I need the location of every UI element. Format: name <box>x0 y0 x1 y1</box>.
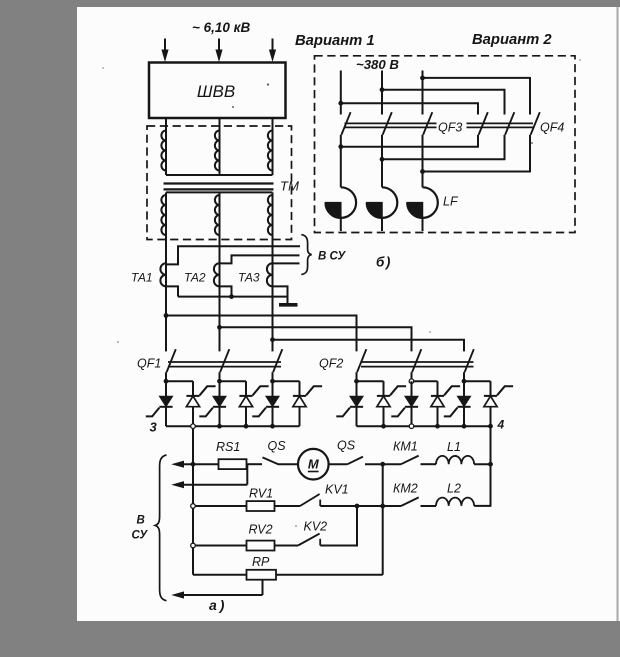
wire: 380V phase 1 vertical <box>340 71 342 115</box>
junction 380V phase 3 top tap <box>420 76 425 81</box>
wire arrow2 <box>182 484 247 486</box>
breaker QF4 pole 1 <box>479 112 488 135</box>
node bridge2 pair 2 (terminal) <box>409 379 414 384</box>
reactor LF1 <box>326 187 357 231</box>
wire: QF4 pole 1 upper lead <box>477 102 479 114</box>
inductor L1 <box>436 456 474 464</box>
wire: QF4 pole 3 lower lead <box>529 135 531 173</box>
wire: QF1 pole 3 to bridge <box>272 372 274 381</box>
wire row1 left <box>182 463 219 465</box>
wire KV2 to KV1 row <box>320 506 357 546</box>
current transformer TA1 <box>160 263 166 286</box>
breaker QF2 pole 3 <box>465 349 474 372</box>
wire: bridge1 output bus (node 3) <box>166 425 300 427</box>
wire: bridge1 pair 3 top link <box>273 380 300 382</box>
svg-text:~ 6,10 кВ: ~ 6,10 кВ <box>192 20 251 35</box>
thyristor VS11 (cathode down) <box>444 381 471 426</box>
node bridge1 pair 3 <box>270 379 275 384</box>
breaker QF1 pole 3 <box>273 349 282 372</box>
supply arrow 3 <box>269 39 276 63</box>
wire: phase 1 into TM primary <box>165 118 167 175</box>
wire: TA1 return lead <box>166 286 178 296</box>
svg-text:QF2: QF2 <box>319 357 343 371</box>
svg-text:СУ: СУ <box>132 530 149 542</box>
junction 380V phase 1 bottom tap <box>338 144 343 149</box>
wire <box>329 463 348 465</box>
svg-text:б): б) <box>376 255 392 270</box>
arrow to control (RS1 signal) <box>171 461 184 468</box>
resistor RV1 <box>247 501 275 511</box>
junction <box>488 462 493 467</box>
svg-text:ТА3: ТА3 <box>238 271 260 285</box>
junction feeder B <box>217 325 222 330</box>
junction bus <box>462 424 467 429</box>
wire: QF4 pole 2 lower lead <box>504 135 506 160</box>
TM primary winding 2 <box>215 131 220 171</box>
wire <box>365 463 401 465</box>
svg-text:КМ1: КМ1 <box>393 440 418 454</box>
wire: phase 1 vertical to QF1 <box>165 235 167 351</box>
contactor KM1 contact <box>401 456 419 465</box>
wire: TM primary common <box>166 174 273 176</box>
svg-text:ШВВ: ШВВ <box>197 82 235 101</box>
arrow to control (RP signal) <box>171 591 184 598</box>
junction <box>380 462 385 467</box>
motor M <box>298 449 329 480</box>
wire RP to KM1 node <box>276 574 383 576</box>
junction <box>191 462 196 467</box>
wire <box>474 505 491 507</box>
junction bus <box>381 424 386 429</box>
wire: 380V phase 2 vertical <box>381 71 383 115</box>
wire: 380V phase 3 vertical <box>422 71 424 115</box>
junction <box>380 504 385 509</box>
breaker QF3 linkage <box>345 122 437 124</box>
wire: QF1 pole 1 to bridge <box>165 372 167 381</box>
wire <box>275 545 299 547</box>
scan specks (noise) <box>267 83 269 85</box>
svg-text:В СУ: В СУ <box>318 251 346 263</box>
current transformer TA2 <box>214 263 220 286</box>
svg-text:3: 3 <box>150 420 158 435</box>
wire: QF2 pole 2 to bridge <box>411 372 413 381</box>
thyristor VS2 (cathode up) <box>186 381 215 426</box>
breaker QF4 pole 2 <box>505 112 514 135</box>
wire <box>275 505 301 507</box>
current transformer TA3 <box>267 263 273 286</box>
thyristor VS7 (cathode down) <box>336 381 363 426</box>
inductor L2 <box>436 498 474 506</box>
wire: bridge2 pair 3 top link <box>464 380 491 382</box>
variant option dashed outline <box>315 56 576 233</box>
resistor RP <box>247 570 277 580</box>
node bridge2 pair 3 <box>462 379 467 384</box>
wire: bridge1 pair 1 top link <box>166 380 193 382</box>
TM secondary winding 2 <box>215 195 220 235</box>
wire: node 3 drop to armature circuit <box>192 429 194 575</box>
node terminal on main drop <box>191 504 196 509</box>
transformer TM dashed outline <box>147 126 292 240</box>
ground (TA secondary earth) <box>279 303 298 307</box>
wire arrow3 <box>182 594 263 596</box>
wire: phase 2 into TM primary <box>219 118 221 175</box>
svg-text:Вариант 2: Вариант 2 <box>472 32 552 48</box>
junction bus <box>270 424 275 429</box>
node 3 tap (terminal) <box>191 424 196 429</box>
wire: tap line 3 lower <box>423 171 531 173</box>
breaker QF1 pole 2 <box>220 349 229 372</box>
wire: TA3 secondary lead to control <box>273 262 300 264</box>
resistor RV2 <box>247 541 275 551</box>
arrow to control (second RS1 signal) <box>171 481 184 488</box>
wire: TA1 secondary lead to control <box>166 246 300 264</box>
wire: tap line 1 upper <box>341 102 478 104</box>
node terminal on main drop <box>191 543 196 548</box>
TM core <box>164 182 274 184</box>
svg-text:L1: L1 <box>447 440 461 454</box>
svg-text:KV1: KV1 <box>325 483 349 497</box>
wire: node 4 drop to L1/L2 <box>490 426 492 506</box>
wire: phase 3 vertical to QF1 <box>272 235 274 351</box>
brace to control system (upper) <box>301 235 311 275</box>
breaker QF4 pole 3 <box>531 112 540 135</box>
supply arrow 1 <box>161 39 168 63</box>
svg-text:В: В <box>137 515 145 527</box>
svg-text:4: 4 <box>497 418 505 432</box>
junction bus <box>217 424 222 429</box>
wire: QF4 pole 2 upper lead <box>504 89 506 115</box>
svg-text:а): а) <box>209 597 227 613</box>
TM secondary winding 1 <box>161 195 166 235</box>
contactor KM2 contact <box>401 497 419 506</box>
breaker QF1 linkage <box>168 361 281 363</box>
wire <box>421 463 437 465</box>
wire: QF4 pole 1 lower lead <box>477 135 479 148</box>
wire: RS1 right terminal drop <box>246 464 248 485</box>
wire <box>421 505 437 507</box>
junction TA2 return <box>229 294 234 299</box>
thyristor VS3 (cathode down) <box>199 381 226 426</box>
wire: QF2 pole 1 to bridge <box>356 372 358 381</box>
wire <box>278 463 298 465</box>
junction bus <box>244 424 249 429</box>
wire: feeder A to QF2 pole 1 <box>166 316 357 352</box>
wire row3 left <box>195 545 247 547</box>
block U1 ШВВ (HV switchgear cabinet) <box>149 63 286 119</box>
svg-text:RV1: RV1 <box>249 487 273 501</box>
wire: phase 2 out of TM <box>219 192 221 235</box>
wire: feeder C to QF2 pole 3 <box>273 340 465 352</box>
wire: bridge2 pair 1 top link <box>357 380 384 382</box>
junction feeder A <box>164 313 169 318</box>
svg-text:LF: LF <box>443 195 459 209</box>
wire: feeder B to QF2 pole 2 <box>220 327 412 351</box>
thyristor VS6 (cathode up) <box>293 381 322 426</box>
svg-text:QS: QS <box>337 439 356 453</box>
svg-text:RV2: RV2 <box>249 523 273 537</box>
svg-text:КМ2: КМ2 <box>393 482 418 496</box>
breaker QF3 pole 2 <box>383 112 392 135</box>
switch QS right blade <box>348 457 364 465</box>
breaker QF2 pole 1 <box>357 349 366 372</box>
svg-text:~380 В: ~380 В <box>356 57 399 72</box>
wire row4 left <box>193 574 247 576</box>
thyristor VS8 (cathode up) <box>377 381 406 426</box>
svg-text:QS: QS <box>268 439 287 453</box>
breaker QF1 pole 1 <box>167 349 176 372</box>
relay contact KV2 <box>298 534 320 546</box>
wire: TA2 return lead <box>220 286 232 296</box>
thyristor VS1 (cathode down) <box>146 381 173 426</box>
relay contact KV1 <box>300 494 320 506</box>
TM primary winding 3 <box>268 131 273 171</box>
svg-text:М: М <box>308 456 320 471</box>
supply arrow 2 <box>215 39 222 63</box>
junction 380V phase 2 bottom tap <box>380 157 385 162</box>
thyristor VS10 (cathode up) <box>431 381 460 426</box>
junction <box>355 504 360 509</box>
wire row2 left <box>195 505 247 507</box>
thyristor VS9 (cathode down) <box>391 381 418 426</box>
svg-text:ТА2: ТА2 <box>184 271 206 285</box>
switch QS left blade <box>263 457 279 464</box>
wire: phase 3 out of TM <box>272 192 274 235</box>
svg-text:QF1: QF1 <box>137 357 161 371</box>
wire <box>247 463 263 465</box>
svg-text:ТА1: ТА1 <box>131 271 153 285</box>
wire: TM secondary common <box>166 191 273 193</box>
wire: phase 3 into TM primary <box>272 118 274 175</box>
breaker QF2 linkage <box>361 361 474 363</box>
reactor LF2 <box>367 187 398 231</box>
node bridge2 pair 1 <box>354 379 359 384</box>
svg-text:QF3: QF3 <box>438 121 462 135</box>
thyristor VS4 (cathode up) <box>239 381 268 426</box>
wire: tap line 2 lower <box>382 158 505 160</box>
thyristor VS5 (cathode down) <box>252 381 279 426</box>
breaker QF2 pole 2 <box>412 349 421 372</box>
junction 380V phase 2 top tap <box>380 87 385 92</box>
TM primary winding 1 <box>161 131 166 171</box>
node bridge1 pair 2 <box>217 379 222 384</box>
junction 380V phase 3 bottom tap <box>420 169 425 174</box>
breaker QF4 linkage <box>467 122 534 124</box>
wire: TA3 return lead <box>273 286 288 303</box>
wire <box>474 463 490 465</box>
wire: bridge2 pair 2 top link <box>412 380 438 382</box>
junction feeder C <box>270 337 275 342</box>
svg-text:ТМ: ТМ <box>280 179 299 194</box>
wire: tap line 3 upper <box>423 77 531 79</box>
wire: bridge2 output bus (node 4) <box>357 425 491 427</box>
thyristor VS12 (cathode up) <box>484 381 513 426</box>
wire <box>320 505 401 507</box>
node bridge1 pair 1 <box>164 379 169 384</box>
wire: bridge1 pair 2 top link <box>220 380 247 382</box>
node bus (terminal) <box>409 424 414 429</box>
junction bus <box>435 424 440 429</box>
junction bus tap <box>488 424 493 429</box>
wire: TA2 secondary lead to control <box>220 255 300 263</box>
wire: tap line 1 lower <box>341 146 478 148</box>
wire: QF1 pole 2 to bridge <box>219 372 221 381</box>
brace to control system (lower) <box>155 455 166 601</box>
breaker QF3 pole 3 <box>423 112 432 135</box>
TM secondary winding 3 <box>268 195 273 235</box>
wire: QF4 pole 3 upper lead <box>529 77 531 115</box>
svg-text:RP: RP <box>252 555 270 569</box>
svg-text:KV2: KV2 <box>304 520 328 534</box>
breaker QF3 pole 1 <box>341 112 350 135</box>
junction 380V phase 1 top tap <box>338 101 343 106</box>
wire: QF2 pole 3 to bridge <box>463 372 465 381</box>
wire: riser RP to row1 <box>382 464 384 575</box>
reactor LF3 <box>407 187 438 231</box>
svg-text:QF4: QF4 <box>540 121 564 135</box>
wire: RP bottom tap <box>262 580 264 595</box>
svg-text:L2: L2 <box>447 482 461 496</box>
wire: TA common return <box>178 296 288 298</box>
svg-text:RS1: RS1 <box>216 440 240 454</box>
wire: tap line 2 upper <box>382 89 505 91</box>
wire: phase 2 vertical to QF1 <box>219 235 221 351</box>
resistor RS1 <box>219 459 247 469</box>
svg-text:Вариант 1: Вариант 1 <box>295 33 375 49</box>
wire: phase 1 out of TM <box>165 192 167 235</box>
